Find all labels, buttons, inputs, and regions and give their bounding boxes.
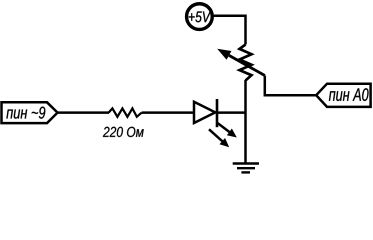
wire <box>142 111 194 114</box>
ground <box>233 164 259 173</box>
power +5V <box>187 4 213 30</box>
wire <box>217 111 246 114</box>
wire <box>56 111 109 114</box>
label 220 Ом <box>103 127 144 137</box>
LED D1 <box>194 99 237 147</box>
node пин ~9 <box>2 102 58 123</box>
wire <box>212 16 246 45</box>
node пин A0 <box>316 84 370 107</box>
wire <box>244 80 247 163</box>
wire <box>265 76 317 96</box>
resistor R1 <box>109 108 142 116</box>
potentiometer RV1 <box>217 45 265 81</box>
